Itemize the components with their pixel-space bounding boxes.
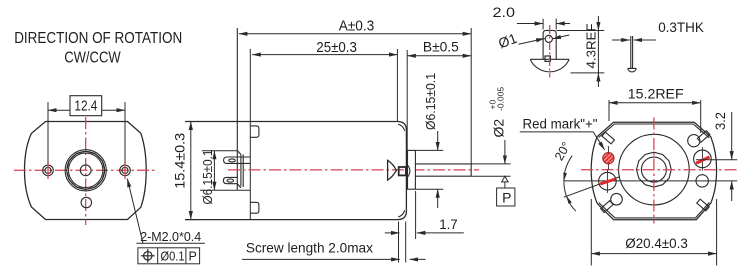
svg-text:P: P <box>189 249 197 263</box>
rear terminal tab top-left <box>602 132 614 144</box>
terminal thickness strip <box>630 36 632 68</box>
svg-text:DIRECTION OF ROTATION: DIRECTION OF ROTATION <box>14 30 182 47</box>
svg-text:Ø1: Ø1 <box>496 30 519 51</box>
screw head cone <box>388 160 397 180</box>
side view can/endcap joint <box>249 49 251 220</box>
left mounting hole <box>599 172 617 190</box>
dimension B±0.5 <box>406 50 408 150</box>
can bottom crimp tab <box>250 202 259 213</box>
dimension A±0.3 <box>470 28 472 164</box>
svg-text:12.4: 12.4 <box>74 99 97 115</box>
rear body inner rim bottom <box>599 202 710 218</box>
terminal detail hole <box>545 35 552 42</box>
svg-text:15.2REF: 15.2REF <box>628 85 684 101</box>
front hub shaft hole <box>80 165 91 176</box>
lower terminal <box>223 177 237 183</box>
front right mounting hole <box>120 165 131 176</box>
shaft <box>415 163 471 165</box>
rear body inner rim top <box>599 124 710 138</box>
rear body outline <box>591 122 716 219</box>
svg-text:Ø0.1: Ø0.1 <box>161 249 185 263</box>
dimension 4.3REF <box>557 30 605 32</box>
right top mounting hole <box>694 150 712 168</box>
svg-text:0.3THK: 0.3THK <box>658 20 704 35</box>
flange washer <box>408 150 416 189</box>
dimension Ø6.15 right arrows <box>437 131 439 150</box>
dimension 15.4±0.3 <box>185 219 197 221</box>
terminal detail centerline <box>549 25 551 78</box>
feature control frame <box>138 248 200 264</box>
title: DIRECTION OF ROTATION / CW/CCW <box>14 30 182 66</box>
endcap boss face <box>240 154 242 186</box>
svg-text:A±0.3: A±0.3 <box>339 19 375 35</box>
rear tab bottom-left <box>601 201 613 213</box>
rear hub inner circle <box>641 157 666 182</box>
svg-text:1.7: 1.7 <box>439 216 458 232</box>
endcap top chamfer <box>237 151 241 155</box>
side view endcap left edge + A extension <box>236 28 238 190</box>
top right hole <box>688 135 700 147</box>
svg-text:Red mark"+": Red mark"+" <box>523 116 598 131</box>
position symbol <box>144 252 152 260</box>
dimension 1.7 <box>398 222 400 263</box>
dimension 12.4 line <box>48 109 125 111</box>
red mark circle <box>607 146 609 170</box>
strip foot dome <box>628 68 637 71</box>
svg-text:Ø2: Ø2 <box>491 119 507 138</box>
svg-text:B±0.5: B±0.5 <box>423 39 459 55</box>
20 degree line <box>564 177 620 198</box>
front view horizontal centerline <box>14 169 157 171</box>
screw shank <box>399 167 406 175</box>
svg-text:-0.005: -0.005 <box>496 87 506 111</box>
svg-text:CW/CCW: CW/CCW <box>64 50 121 67</box>
bearing dome <box>406 164 410 179</box>
leader 2-M2.0*0.4 <box>127 179 143 244</box>
svg-text:2.0: 2.0 <box>493 4 516 20</box>
dimension 12.4 extension lines <box>47 102 49 163</box>
svg-text:Ø20.4±0.3: Ø20.4±0.3 <box>625 236 688 251</box>
side view can bottom line <box>185 211 406 220</box>
svg-text:Ø6.15±0.1: Ø6.15±0.1 <box>200 150 215 205</box>
dimension 3.2 <box>696 159 737 161</box>
side view red centerline <box>228 169 479 171</box>
dimension Ø2 label <box>488 87 507 138</box>
dimension 15.2REF <box>608 100 610 121</box>
rear tab bottom-right <box>697 199 709 211</box>
endcap bottom chamfer <box>237 184 241 188</box>
boss bottom extension line (Ø6.15 left) <box>200 189 250 191</box>
svg-text:20°: 20° <box>552 140 574 163</box>
rear terminal tab top-right <box>697 131 709 143</box>
terminal detail body <box>543 30 556 59</box>
endcap boss inner line <box>242 154 244 187</box>
holes axis line <box>564 180 737 182</box>
datum P flag <box>502 176 508 182</box>
front hub knurled boss <box>65 150 106 191</box>
dimension 25±0.3 <box>396 49 398 122</box>
svg-text:3.2: 3.2 <box>712 112 728 130</box>
upper terminal <box>224 157 251 163</box>
svg-text:15.4±0.3: 15.4±0.3 <box>172 133 188 189</box>
svg-text:Screw length 2.0max: Screw length 2.0max <box>246 240 373 255</box>
svg-text:25±0.3: 25±0.3 <box>316 40 357 56</box>
svg-text:2-M2.0*0.4: 2-M2.0*0.4 <box>140 229 201 244</box>
shaft top extension <box>471 163 510 165</box>
can rim inner corner bottom <box>398 210 405 217</box>
rear vertical centerline <box>653 118 655 224</box>
shaft bottom extension <box>471 175 510 177</box>
svg-text:4.3REF: 4.3REF <box>583 23 598 68</box>
bottom left hole <box>611 193 623 205</box>
front view body outline <box>25 122 147 220</box>
right bottom hole <box>696 175 708 187</box>
dimension 12.4 frame and text <box>70 96 102 116</box>
can top crimp tab <box>250 126 259 137</box>
dimension Ø6.15 left <box>213 151 215 191</box>
terminal detail base dome <box>530 59 569 72</box>
front view vertical centerline <box>85 117 87 225</box>
rear horizontal centerline <box>581 169 738 171</box>
side view can top line <box>185 122 406 131</box>
20 degree arc <box>564 156 576 212</box>
0.3THK arrows <box>612 39 630 41</box>
front left mounting hole <box>43 165 54 176</box>
boss top extension line (Ø6.15 left) <box>202 150 238 152</box>
dimension Ø20.4±0.3 <box>590 199 592 266</box>
dimension Ø6.15 right extension lines <box>415 149 443 151</box>
svg-text:Ø6.15±0.1: Ø6.15±0.1 <box>423 73 438 130</box>
side view can right face <box>405 130 407 211</box>
svg-text:P: P <box>502 189 511 205</box>
terminal detail crimp slot <box>545 56 550 61</box>
can rim inner corner top <box>398 124 405 131</box>
rear hub outer circle <box>619 134 690 205</box>
front bottom small hole <box>81 197 91 207</box>
rear hub polygon <box>637 152 672 187</box>
